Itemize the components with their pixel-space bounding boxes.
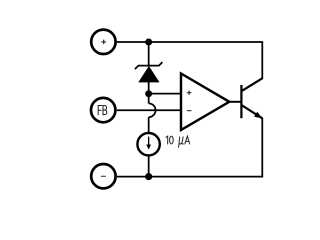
terminal - label: [101, 175, 106, 177]
wire top rail to collector: [117, 42, 262, 79]
terminal + (cathode) circle: [91, 30, 115, 54]
current source I1 arrow: [148, 137, 150, 146]
transistor Q1 emitter: [241, 105, 262, 118]
op-amp U1: [181, 74, 229, 131]
current source I1 circle: [137, 133, 159, 155]
node top junction dot: [145, 39, 152, 46]
wire center vertical upper (top rail to zener): [148, 42, 150, 67]
transistor Q1 emitter arrow: [254, 112, 262, 119]
wire hop over FB line: [149, 103, 156, 117]
zener diode D1 cathode bar: [135, 62, 163, 69]
terminal - (anode) circle: [91, 164, 115, 188]
transistor Q1 collector: [241, 78, 262, 91]
op-amp U1 minus input label: [187, 110, 192, 112]
wire op-amp output to base: [229, 101, 241, 103]
terminal FB label: [98, 106, 107, 115]
terminal + label: [101, 40, 106, 45]
node A junction dot (op-amp + input): [145, 90, 152, 97]
current source value label 10 uA: [166, 136, 190, 147]
wire op-amp noninverting input: [149, 93, 182, 95]
zener diode D1 anode triangle: [139, 66, 159, 82]
op-amp U1 plus input label: [187, 90, 192, 95]
terminal FB circle: [91, 98, 115, 122]
wire zener anode to node A: [148, 82, 150, 104]
wire hop to bottom rail through current source: [148, 117, 150, 176]
wire FB to op-amp inverting input: [117, 109, 182, 111]
wire emitter to bottom rail: [117, 118, 262, 177]
transistor Q1 base bar: [240, 85, 242, 118]
node bottom junction dot: [145, 173, 152, 180]
